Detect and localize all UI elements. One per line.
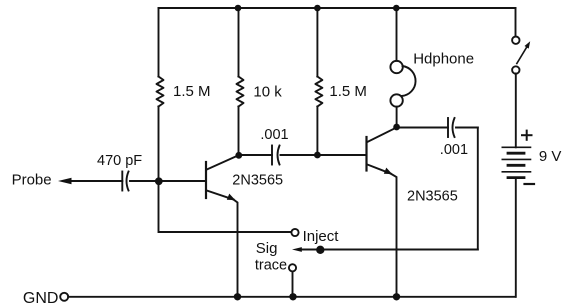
svg-text:Inject: Inject [303, 228, 340, 245]
svg-text:GND: GND [23, 290, 59, 305]
svg-text:2N3565: 2N3565 [232, 173, 283, 189]
svg-text:9 V: 9 V [539, 148, 562, 165]
svg-text:trace: trace [255, 257, 287, 273]
svg-text:1.5 M: 1.5 M [173, 83, 211, 100]
svg-text:1.5 M: 1.5 M [329, 83, 367, 100]
svg-text:Sig: Sig [256, 240, 278, 257]
svg-text:.001: .001 [440, 142, 468, 158]
svg-text:470 pF: 470 pF [97, 153, 142, 169]
svg-text:Hdphone: Hdphone [413, 51, 474, 68]
svg-text:.001: .001 [260, 127, 288, 143]
svg-text:10 k: 10 k [253, 83, 282, 100]
svg-text:Probe: Probe [12, 172, 52, 189]
svg-text:2N3565: 2N3565 [407, 189, 458, 205]
